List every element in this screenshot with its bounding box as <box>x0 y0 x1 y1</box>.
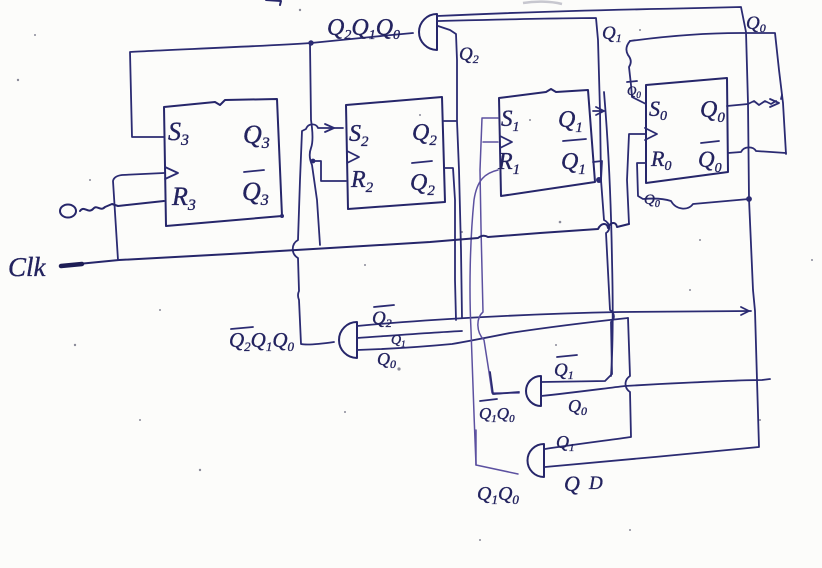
svg-text:Q2Q1Q0: Q2Q1Q0 <box>229 328 295 354</box>
svg-text:Clk: Clk <box>8 252 47 282</box>
svg-text:D: D <box>588 473 603 494</box>
svg-text:Q: Q <box>564 471 580 496</box>
svg-text:Q2Q1Q0: Q2Q1Q0 <box>327 15 400 43</box>
